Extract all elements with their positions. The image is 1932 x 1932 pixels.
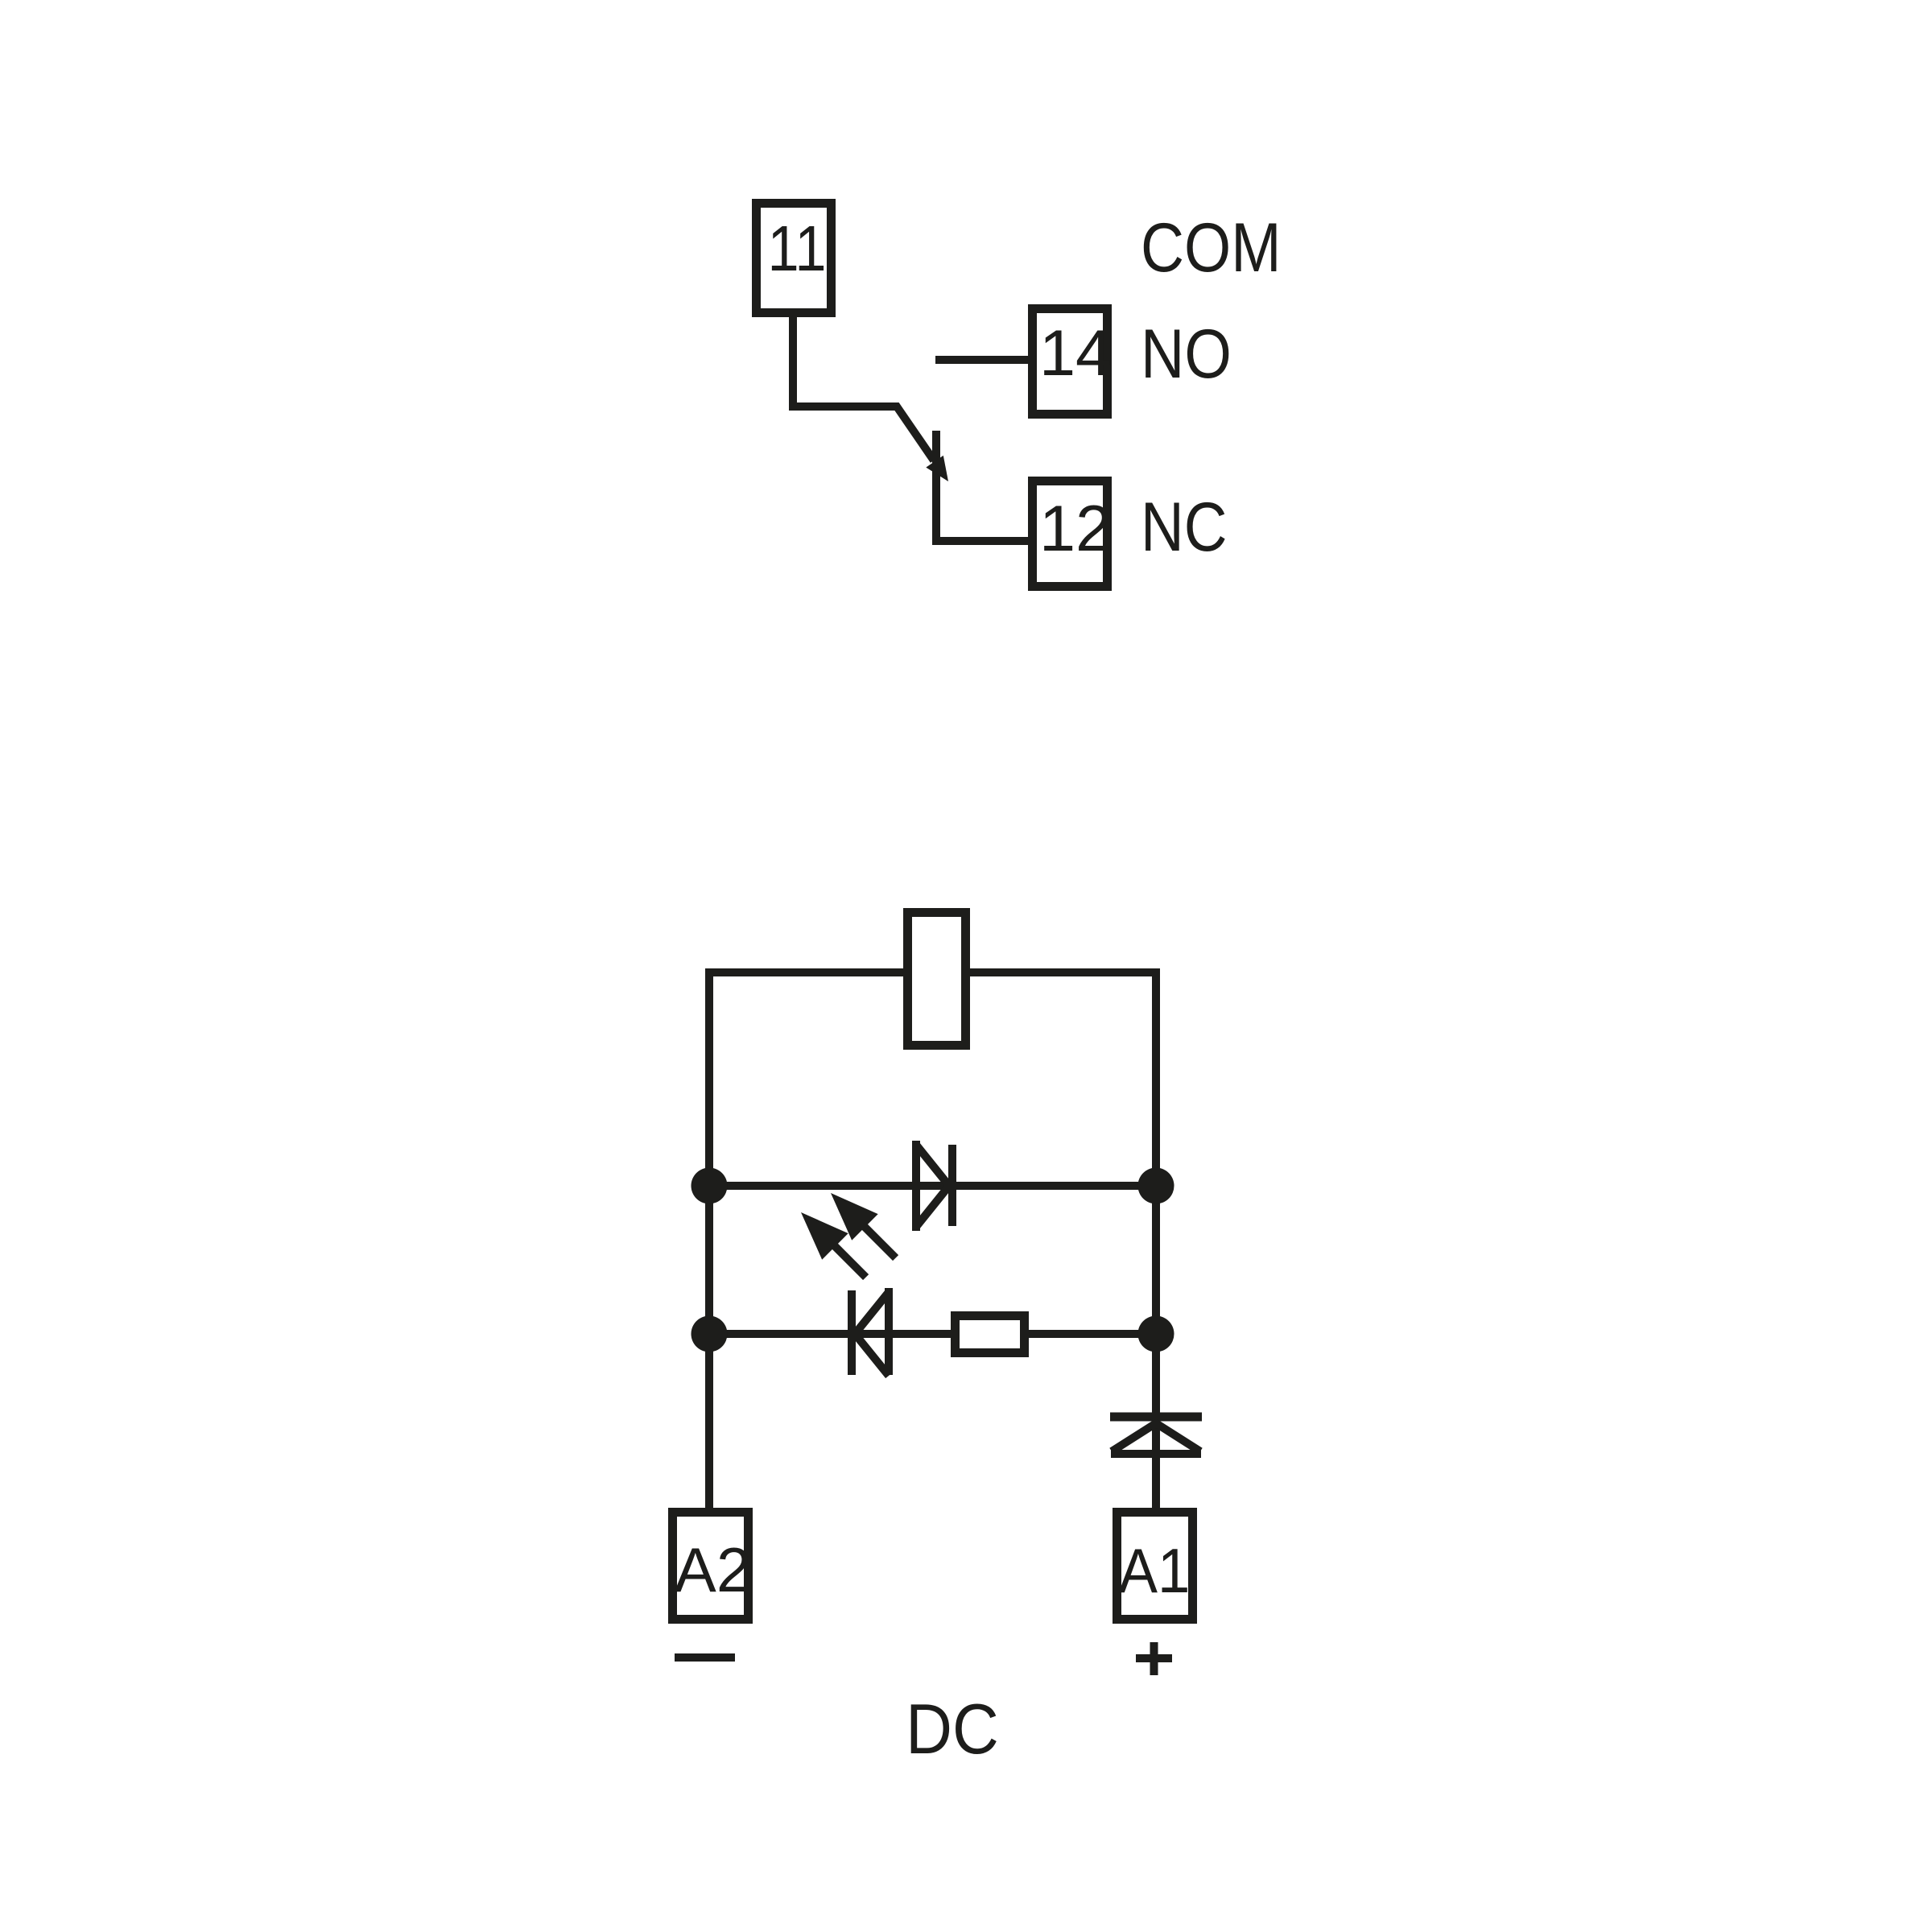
svg-text:DC: DC [906, 1690, 999, 1769]
svg-text:14: 14 [1039, 317, 1112, 390]
svg-text:A1: A1 [1119, 1536, 1191, 1606]
svg-text:12: 12 [1039, 493, 1112, 565]
svg-text:COM: COM [1141, 209, 1282, 287]
svg-text:NC: NC [1141, 489, 1227, 566]
svg-text:NO: NO [1141, 316, 1232, 393]
svg-text:A2: A2 [675, 1534, 751, 1605]
svg-text:11: 11 [767, 213, 826, 284]
